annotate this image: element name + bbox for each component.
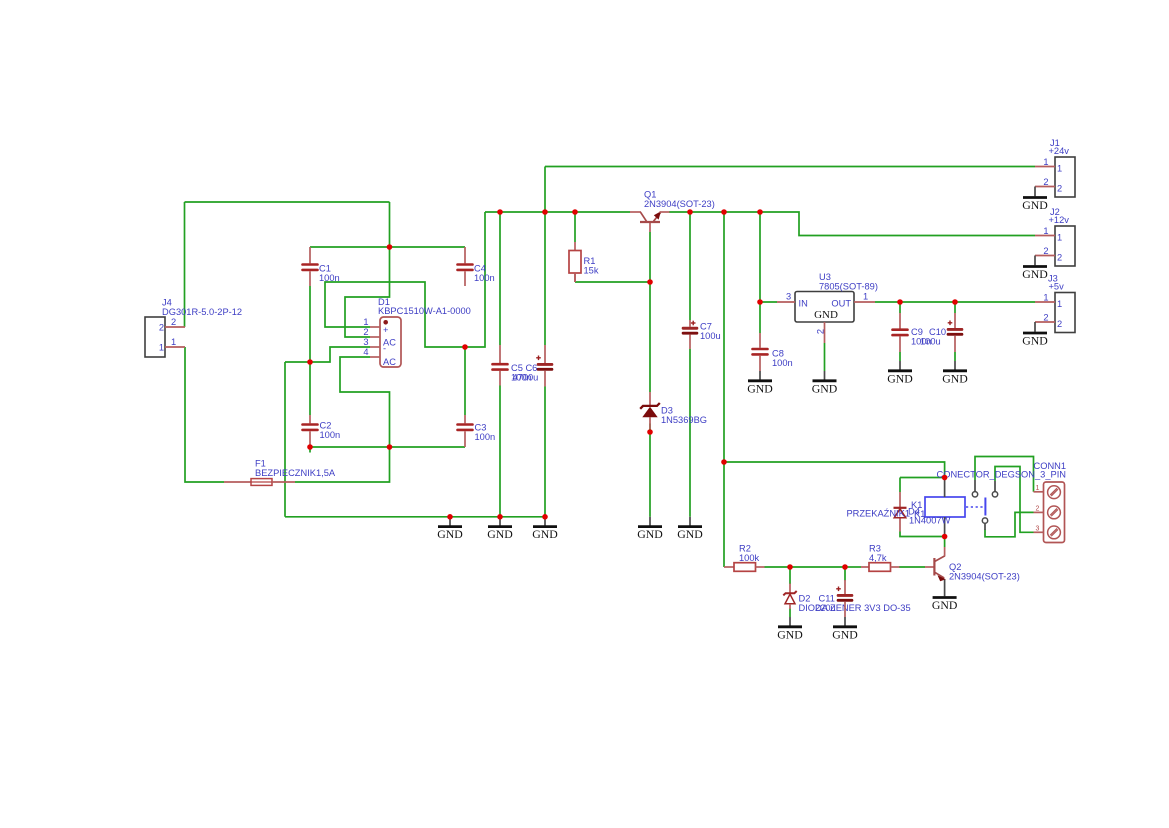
- wire C6 top lead: [544, 212, 546, 345]
- svg-text:100k: 100k: [739, 553, 760, 563]
- svg-text:F1: F1: [255, 459, 266, 469]
- wire U3 input drop: [759, 212, 761, 302]
- ground at J2: [1022, 256, 1048, 281]
- svg-text:2: 2: [1043, 246, 1048, 256]
- svg-text:1: 1: [1043, 226, 1048, 236]
- K1 actuator bar: [984, 498, 986, 516]
- J4 pin 2 stub: [165, 326, 185, 328]
- wire +24v rail to J1: [545, 166, 1035, 168]
- connector CONN1: [937, 461, 1067, 543]
- CONN1 screw terminal: [1048, 506, 1061, 519]
- junction: [787, 564, 793, 570]
- connector J2: [1035, 207, 1075, 266]
- svg-text:C3: C3: [475, 423, 487, 433]
- zener diode D3: [640, 392, 707, 429]
- svg-text:1: 1: [1057, 164, 1062, 174]
- junction: [647, 279, 653, 285]
- wire minus rail down: [284, 362, 286, 517]
- voltage regulator U3: [777, 272, 878, 371]
- capacitor C8: [753, 333, 768, 371]
- svg-text:U3: U3: [819, 272, 831, 282]
- K1 contact NC: [992, 481, 997, 497]
- connector J3: [1035, 274, 1075, 333]
- wire C2 bottom to C3 bottom: [310, 446, 465, 448]
- wire R3 to Q2 base: [899, 566, 925, 568]
- resistor R1: [569, 242, 581, 282]
- svg-text:PRZEKAŹNIK1: PRZEKAŹNIK1: [846, 509, 910, 519]
- bridge rectifier D1: [363, 297, 471, 367]
- capacitor C3: [458, 415, 473, 447]
- svg-text:R2: R2: [739, 544, 751, 554]
- J4 pin 1 stub: [165, 346, 185, 348]
- wire C2 top lead: [309, 362, 311, 415]
- junction: [387, 244, 393, 250]
- ground at J1: [1022, 187, 1048, 212]
- wire base node to D3: [649, 282, 651, 392]
- wire contact common to CONN1 pin2: [985, 512, 1034, 536]
- svg-text:OUT: OUT: [831, 299, 851, 309]
- zener diode D2: [783, 584, 910, 613]
- svg-text:2: 2: [816, 329, 826, 334]
- wire C11 top lead: [844, 567, 846, 581]
- svg-text:C8: C8: [772, 349, 784, 359]
- CONN1 screw terminal: [1048, 486, 1061, 499]
- D1 pin 2 stub: [370, 336, 380, 338]
- CONN1 pin 1 stub: [1034, 491, 1044, 493]
- wire J4 pin1 down to fuse: [185, 347, 224, 482]
- svg-text:K1: K1: [914, 509, 925, 519]
- wire R1 bottom to base node: [575, 281, 650, 283]
- wire C5 top lead: [499, 212, 501, 345]
- wire relay node horizontal: [724, 462, 945, 478]
- svg-text:GND: GND: [932, 598, 958, 612]
- wire R1 top lead: [574, 212, 576, 242]
- wire U3 IN stub: [760, 301, 777, 303]
- J2 pin 2 stub: [1035, 255, 1055, 257]
- svg-text:DG301R-5.0-2P-12: DG301R-5.0-2P-12: [162, 307, 242, 317]
- svg-text:+5v: +5v: [1049, 281, 1065, 291]
- wire C9 bottom lead: [899, 352, 901, 361]
- svg-text:C9: C9: [911, 327, 923, 337]
- resistor R2: [724, 563, 765, 572]
- D1 pin 3 stub: [370, 346, 380, 348]
- capacitor C2: [303, 415, 318, 447]
- capacitor C10: [947, 313, 964, 352]
- svg-text:GND: GND: [1022, 267, 1048, 281]
- K1 actuator dashed link: [966, 506, 983, 508]
- wire fuse to AC2 node: [295, 447, 390, 482]
- wire AC2 to D1 pin4: [340, 357, 390, 447]
- capacitor C5: [493, 345, 508, 386]
- J3 pin 2 stub: [1035, 321, 1055, 323]
- U3 IN pin stub: [777, 301, 795, 303]
- svg-text:100n: 100n: [475, 432, 496, 442]
- wire C3 top lead: [464, 347, 466, 415]
- wire top rail drop to C1-C4 rail: [389, 202, 391, 247]
- wire plus node up to main bus: [465, 212, 485, 347]
- K1 contact common: [982, 518, 987, 530]
- svg-text:+12v: +12v: [1049, 215, 1070, 225]
- svg-text:GND: GND: [487, 527, 513, 541]
- CONN1 screw terminal: [1048, 526, 1061, 539]
- svg-text:100n: 100n: [320, 430, 341, 440]
- svg-text:1: 1: [159, 343, 164, 353]
- wire Q1 base down: [649, 232, 651, 282]
- U3 OUT pin stub: [854, 301, 875, 303]
- svg-text:Q2: Q2: [949, 562, 961, 572]
- svg-text:C2: C2: [320, 421, 332, 431]
- capacitor C7: [682, 320, 699, 349]
- svg-text:4: 4: [363, 347, 368, 357]
- svg-text:4,7k: 4,7k: [869, 553, 887, 563]
- svg-text:GND: GND: [677, 527, 703, 541]
- junction: [897, 299, 903, 305]
- wire D4 top lead: [899, 478, 901, 493]
- wire C5 bottom lead: [499, 386, 501, 517]
- wire main bus left segment: [485, 211, 630, 213]
- svg-text:2: 2: [1057, 184, 1062, 194]
- svg-text:7805(SOT-89): 7805(SOT-89): [819, 282, 878, 292]
- K1 coil pin top: [944, 479, 946, 497]
- junction: [757, 209, 763, 215]
- junction: [572, 209, 578, 215]
- svg-text:2: 2: [1057, 253, 1062, 263]
- resistor R3: [861, 563, 900, 572]
- svg-text:GND: GND: [814, 309, 838, 321]
- wire coil bottom to Q2 collector: [944, 537, 946, 548]
- wire ground bus: [285, 516, 545, 518]
- svg-text:2: 2: [159, 323, 164, 333]
- junction: [942, 475, 948, 481]
- svg-text:100n: 100n: [319, 273, 340, 283]
- wire R2 to base rail: [765, 566, 846, 568]
- wire C9 top lead: [899, 302, 901, 313]
- svg-text:100n: 100n: [772, 358, 793, 368]
- K1 contact NO: [972, 480, 977, 497]
- svg-text:GND: GND: [1022, 333, 1048, 347]
- wire C10 bottom lead: [954, 352, 956, 361]
- wire C6 bottom lead: [544, 387, 546, 517]
- svg-text:1N5369BG: 1N5369BG: [661, 415, 707, 425]
- wire contact NO to CONN1 pin1: [975, 457, 1034, 492]
- capacitor C4: [458, 247, 473, 286]
- svg-text:2: 2: [1043, 313, 1048, 323]
- svg-text:1: 1: [363, 317, 368, 327]
- wire D4 top: [900, 477, 945, 479]
- wire D1 pin1 to plus node: [325, 282, 465, 347]
- svg-text:Q1: Q1: [644, 190, 656, 200]
- svg-text:2: 2: [1043, 177, 1048, 187]
- svg-text:R3: R3: [869, 544, 881, 554]
- wire net AC1 top: [185, 201, 390, 203]
- svg-text:100n: 100n: [474, 273, 495, 283]
- svg-text:GND: GND: [1022, 198, 1048, 212]
- svg-text:3: 3: [1036, 525, 1040, 532]
- junction: [687, 209, 693, 215]
- J2 pin 1 stub: [1035, 235, 1055, 237]
- junction: [447, 514, 453, 520]
- wire bus to +24v rail riser: [544, 167, 546, 213]
- ground at C9: [887, 361, 913, 385]
- wire C1 top to C4 top: [310, 246, 465, 248]
- J1 pin 1 stub: [1035, 166, 1055, 168]
- svg-text:2: 2: [171, 317, 176, 327]
- svg-text:1: 1: [1043, 293, 1048, 303]
- svg-text:15k: 15k: [584, 265, 599, 275]
- svg-text:3: 3: [786, 292, 791, 302]
- junction: [542, 209, 548, 215]
- junction: [757, 299, 763, 305]
- junction: [462, 344, 468, 350]
- wire C7 bottom to ground: [689, 349, 691, 517]
- svg-text:C10: C10: [929, 327, 946, 337]
- ground at C8: [747, 371, 773, 395]
- svg-text:C7: C7: [700, 322, 712, 332]
- svg-text:1: 1: [1043, 157, 1048, 167]
- wire J4 pin2 to top rail: [184, 202, 186, 327]
- svg-text:D3: D3: [661, 406, 673, 416]
- capacitor C1: [303, 247, 318, 286]
- svg-text:4700u: 4700u: [513, 373, 539, 383]
- svg-text:+24v: +24v: [1049, 146, 1070, 156]
- svg-text:GND: GND: [747, 381, 773, 395]
- wire relay supply drop: [723, 212, 725, 463]
- junction: [307, 444, 313, 450]
- wire D2 bottom lead: [789, 609, 791, 618]
- svg-text:-: -: [383, 344, 386, 354]
- capacitor C11: [836, 580, 853, 617]
- svg-text:BEZPIECZNIK1,5A: BEZPIECZNIK1,5A: [255, 468, 336, 478]
- svg-text:GND: GND: [777, 627, 803, 641]
- wire AC1 to D1 pin2: [345, 247, 390, 337]
- connector J1: [1035, 138, 1075, 197]
- svg-text:GND: GND: [812, 381, 838, 395]
- wire emitter rail to J2: [669, 212, 1035, 236]
- fuse F1: [224, 459, 336, 486]
- svg-text:100u: 100u: [920, 337, 941, 347]
- wire D4 bottom: [900, 532, 945, 537]
- ground at D3: [637, 517, 663, 541]
- wire C10 top lead: [954, 302, 956, 313]
- connector J4: [145, 298, 242, 358]
- D1 pin 4 stub: [370, 356, 380, 358]
- ground at C10: [942, 361, 968, 385]
- svg-text:1: 1: [171, 337, 176, 347]
- transistor Q1: [630, 190, 715, 233]
- svg-text:220u: 220u: [815, 603, 836, 613]
- K1 coil pin bottom: [944, 517, 946, 536]
- junction: [497, 209, 503, 215]
- svg-text:GND: GND: [437, 527, 463, 541]
- ground on bus 1: [437, 517, 463, 541]
- ground at J3: [1022, 322, 1048, 347]
- junction: [942, 534, 948, 540]
- CONN1 pin 3 stub: [1034, 531, 1044, 533]
- svg-text:GND: GND: [887, 371, 913, 385]
- wire D3 to ground: [649, 424, 651, 517]
- junction: [387, 444, 393, 450]
- ground at Q2: [932, 580, 958, 612]
- junction: [307, 359, 313, 365]
- svg-text:2N3904(SOT-23): 2N3904(SOT-23): [949, 572, 1020, 582]
- svg-text:C5 C6: C5 C6: [511, 363, 537, 373]
- svg-text:IN: IN: [799, 299, 808, 309]
- junction: [542, 514, 548, 520]
- svg-text:CONECTOR_DEGSON_3_PIN: CONECTOR_DEGSON_3_PIN: [937, 469, 1067, 479]
- svg-text:3: 3: [363, 337, 368, 347]
- svg-text:100u: 100u: [700, 331, 721, 341]
- wire contact NC to CONN1 pin3: [995, 467, 1034, 533]
- wire D2 top lead: [789, 567, 791, 584]
- svg-text:1: 1: [1057, 299, 1062, 309]
- ground: [777, 617, 803, 641]
- svg-text:2N3904(SOT-23): 2N3904(SOT-23): [644, 199, 715, 209]
- svg-text:1: 1: [1036, 485, 1040, 492]
- svg-text:C4: C4: [474, 264, 486, 274]
- svg-text:GND: GND: [832, 627, 858, 641]
- junction: [952, 299, 958, 305]
- J1 pin 2 stub: [1035, 186, 1055, 188]
- wire stub below C2: [309, 447, 311, 453]
- relay K1 coil: [925, 479, 985, 536]
- ground: [832, 617, 858, 641]
- wire D1 pin3 to minus rail: [285, 347, 370, 362]
- wire C7 top lead: [689, 212, 691, 320]
- wire U3 OUT to J3: [875, 301, 1035, 303]
- junction: [721, 459, 727, 465]
- svg-text:2: 2: [363, 327, 368, 337]
- svg-text:GND: GND: [942, 371, 968, 385]
- junction: [647, 429, 653, 435]
- svg-text:2: 2: [1057, 319, 1062, 329]
- svg-text:KBPC1510W-A1-0000: KBPC1510W-A1-0000: [378, 306, 471, 316]
- svg-text:C1: C1: [319, 264, 331, 274]
- ground at C7: [677, 517, 703, 541]
- wire R3 left segment: [845, 566, 861, 568]
- wire relay node to R2: [723, 462, 725, 567]
- transistor Q2: [925, 547, 1020, 582]
- ground on bus 2: [487, 517, 513, 541]
- D1 pin 1 stub: [370, 326, 380, 328]
- U3 GND pin stub: [824, 322, 826, 343]
- capacitor C6: [536, 345, 553, 387]
- svg-text:AC: AC: [383, 357, 396, 367]
- svg-text:GND: GND: [637, 527, 663, 541]
- wire R1 bottom lead: [574, 273, 576, 282]
- junction: [497, 514, 503, 520]
- D1 pin1 marker dot: [383, 320, 388, 325]
- ground at U3: [812, 371, 838, 395]
- junction: [721, 209, 727, 215]
- capacitor C9: [893, 313, 908, 352]
- ground on bus 3: [532, 517, 558, 541]
- svg-text:1: 1: [863, 292, 868, 302]
- svg-text:GND: GND: [532, 527, 558, 541]
- svg-text:+: +: [383, 325, 388, 335]
- wire C8 top lead: [759, 302, 761, 333]
- diode D4: [894, 492, 951, 532]
- svg-text:2: 2: [1036, 505, 1040, 512]
- svg-text:1: 1: [1057, 233, 1062, 243]
- junction: [842, 564, 848, 570]
- CONN1 pin 2 stub: [1034, 511, 1044, 513]
- J3 pin 1 stub: [1035, 301, 1055, 303]
- wire U3 gnd pin: [824, 343, 826, 371]
- wire C1 bottom to minus rail: [309, 286, 311, 362]
